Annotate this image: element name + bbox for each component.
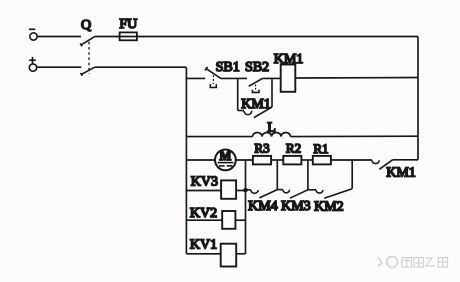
wire: vertical R2-R1 junction <box>307 160 309 190</box>
svg-text:KM1: KM1 <box>241 97 271 112</box>
svg-text:KV2: KV2 <box>190 206 217 221</box>
svg-text:M: M <box>219 149 231 163</box>
contact KM2 <box>308 189 352 199</box>
wire: KM1 contact to right bus <box>393 159 418 161</box>
wire: Q to FU <box>95 36 120 38</box>
resistor R1 <box>313 156 331 165</box>
relay coil KV3 <box>186 180 245 198</box>
watermark logo <box>378 257 398 268</box>
switch Q <box>80 37 95 76</box>
wire: FU to right bus (top line) <box>137 36 418 38</box>
contactor main contact KM1 <box>372 160 393 170</box>
contactor coil KM1 <box>281 65 296 92</box>
contact KM4 <box>246 190 278 198</box>
svg-text:KV1: KV1 <box>190 238 217 253</box>
svg-text:L: L <box>267 121 276 136</box>
wire: Q bottom to left bus corner <box>95 66 186 68</box>
svg-text:FU: FU <box>119 17 137 32</box>
wire: motor to R3 <box>236 159 253 161</box>
terminal minus <box>29 29 37 40</box>
inductor L <box>253 133 291 137</box>
svg-text:R2: R2 <box>286 141 301 156</box>
resistor R3 <box>253 156 271 165</box>
wire: SB2 to KM1 coil <box>262 77 280 79</box>
relay coil KV1 <box>186 244 245 267</box>
svg-text:SB1: SB1 <box>216 60 240 75</box>
svg-text:KM1: KM1 <box>274 52 304 67</box>
svg-text:R3: R3 <box>254 141 269 156</box>
motor M <box>215 149 236 170</box>
wire: L line right <box>291 135 419 137</box>
fuse FU <box>120 32 137 40</box>
svg-text:KM2: KM2 <box>314 200 344 215</box>
mid vertical (R3 left node down to KV1) <box>245 160 247 254</box>
wire: minus terminal to switch Q top <box>37 36 81 38</box>
right bus <box>417 37 419 160</box>
wire: R2 to R1 <box>301 159 312 161</box>
wire: SB1 to SB2 <box>221 77 247 79</box>
contact KM3 <box>277 190 308 199</box>
wire: plus terminal to switch Q bottom <box>37 66 82 68</box>
pushbutton SB1 (NC) <box>205 67 221 88</box>
pushbutton SB2 (NO) <box>249 79 263 93</box>
KM1 auxiliary contact branch <box>238 78 272 117</box>
svg-text:Q: Q <box>81 18 91 33</box>
svg-text:KM1: KM1 <box>386 166 416 181</box>
wire: control line left (bus to SB1) <box>186 77 205 79</box>
wire: R3 to R2 <box>271 159 283 161</box>
wire: KM1 coil to right bus <box>295 77 418 80</box>
svg-text:KM4: KM4 <box>248 199 278 214</box>
wire: vertical R3-R2 junction <box>276 160 278 190</box>
left bus <box>185 67 187 254</box>
svg-text:SB2: SB2 <box>245 60 269 75</box>
wire: R1 to KM1 main contact <box>331 159 372 161</box>
svg-text:KV3: KV3 <box>191 175 218 190</box>
wire: motor line left <box>186 159 215 161</box>
watermark text <box>402 258 448 268</box>
resistor R2 <box>283 156 301 165</box>
relay coil KV2 <box>186 211 245 229</box>
junction dot <box>243 188 248 193</box>
svg-text:R1: R1 <box>313 141 328 156</box>
terminal plus <box>29 57 37 71</box>
svg-text:KM3: KM3 <box>281 199 311 214</box>
wire: vertical after R1 <box>351 160 353 189</box>
wire: L line left <box>186 136 252 138</box>
